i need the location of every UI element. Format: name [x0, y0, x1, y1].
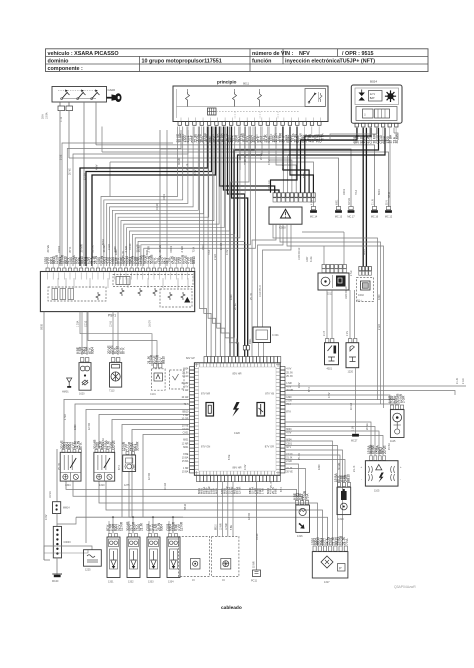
svg-text:2 GR: 2 GR — [286, 460, 292, 463]
svg-text:12 NR: 12 NR — [182, 442, 189, 445]
svg-text:21 JK: 21 JK — [140, 522, 144, 531]
svg-text:15 BA: 15 BA — [102, 438, 105, 445]
svg-text:73 A: 73 A — [355, 190, 358, 195]
svg-text:21 JK: 21 JK — [353, 465, 356, 472]
svg-text:2 GR: 2 GR — [108, 244, 111, 250]
svg-text:BB10: BB10 — [388, 191, 391, 198]
svg-text:87 K: 87 K — [118, 465, 121, 470]
svg-text:1320: 1320 — [286, 396, 292, 399]
svg-text:BB10: BB10 — [347, 474, 351, 482]
svg-text:87 K: 87 K — [122, 347, 126, 354]
svg-text:TU5JP+ (NFT): TU5JP+ (NFT) — [340, 58, 376, 64]
svg-text:10 GR: 10 GR — [220, 243, 223, 250]
svg-text:15 BA: 15 BA — [291, 133, 295, 141]
svg-text:73 A: 73 A — [188, 135, 192, 141]
svg-text:MC.17: MC.17 — [347, 216, 355, 219]
svg-text:9000: 9000 — [236, 338, 239, 344]
svg-text:20 VE: 20 VE — [69, 168, 72, 175]
svg-text:16 GR: 16 GR — [149, 320, 152, 327]
svg-text:C001: C001 — [239, 153, 242, 160]
svg-text:9001: 9001 — [249, 338, 252, 344]
svg-text:8 BE: 8 BE — [274, 488, 278, 494]
svg-text:21 JK: 21 JK — [286, 456, 293, 459]
svg-text:1316: 1316 — [297, 535, 303, 538]
svg-text:82V GP: 82V GP — [186, 357, 195, 360]
svg-text:1 NR: 1 NR — [183, 467, 189, 470]
svg-text:87 K: 87 K — [308, 387, 311, 392]
svg-text:12 VJ: 12 VJ — [110, 320, 113, 327]
svg-text:10 BA: 10 BA — [46, 112, 49, 119]
svg-text:25 JN: 25 JN — [270, 481, 273, 488]
svg-text:1320: 1320 — [303, 172, 306, 178]
svg-text:6001: 6001 — [146, 249, 149, 255]
svg-text:20 VE: 20 VE — [46, 245, 50, 253]
svg-text:PSF1: PSF1 — [108, 314, 116, 318]
svg-text:20 VE: 20 VE — [260, 153, 263, 160]
svg-text:CC10: CC10 — [286, 453, 293, 456]
svg-text:B024: B024 — [370, 80, 377, 84]
svg-text:25 JN: 25 JN — [250, 293, 253, 300]
svg-text:1334: 1334 — [168, 581, 174, 584]
svg-text:MC.12: MC.12 — [385, 216, 393, 219]
svg-text:4 VV: 4 VV — [244, 464, 247, 470]
svg-text:C001: C001 — [343, 188, 346, 195]
svg-text:8 BE: 8 BE — [60, 154, 63, 160]
svg-text:73 A: 73 A — [306, 493, 310, 500]
svg-text:87 K: 87 K — [280, 487, 283, 492]
svg-text:8 BE: 8 BE — [231, 525, 233, 530]
svg-text:92 V: 92 V — [386, 200, 389, 205]
svg-text:6004 GR: 6004 GR — [268, 180, 271, 190]
svg-text:87 K: 87 K — [79, 442, 83, 449]
svg-text:6004: 6004 — [160, 524, 164, 531]
svg-text:92 NR: 92 NR — [254, 561, 256, 568]
svg-text:-: - — [361, 478, 362, 481]
svg-text:1320: 1320 — [115, 249, 118, 255]
svg-text:1220: 1220 — [348, 371, 354, 374]
svg-text:1331: 1331 — [108, 581, 114, 584]
svg-text:BB10: BB10 — [192, 256, 196, 264]
svg-text:/ OPR : 9515: / OPR : 9515 — [342, 51, 373, 57]
svg-text:6004: 6004 — [378, 189, 381, 195]
svg-text:1 NR: 1 NR — [286, 382, 292, 385]
svg-text:87 K: 87 K — [68, 247, 72, 253]
svg-text:10 GR: 10 GR — [350, 403, 353, 410]
svg-text:6004: 6004 — [286, 428, 292, 431]
svg-text:MC40: MC40 — [52, 580, 59, 583]
svg-text:10 GR: 10 GR — [181, 396, 188, 399]
svg-text:2 GR: 2 GR — [402, 395, 406, 403]
svg-text:1320: 1320 — [318, 464, 321, 470]
svg-text:1313: 1313 — [338, 518, 344, 521]
svg-text:1225: 1225 — [85, 569, 91, 572]
svg-text:4 VV: 4 VV — [286, 368, 292, 371]
svg-text:1640 MC10: 1640 MC10 — [345, 286, 348, 299]
svg-text:4 VV: 4 VV — [226, 249, 229, 255]
svg-text:dominio: dominio — [48, 58, 70, 64]
svg-text:4 VV: 4 VV — [45, 514, 48, 520]
svg-text:4 VV: 4 VV — [328, 392, 331, 398]
svg-text:15 BA: 15 BA — [388, 443, 391, 450]
svg-text:1 JN: 1 JN — [353, 426, 355, 431]
svg-text:20 VE: 20 VE — [244, 155, 247, 162]
svg-text:25 JN: 25 JN — [58, 463, 61, 470]
svg-text:C 10: C 10 — [60, 116, 63, 122]
svg-text:C001: C001 — [57, 245, 61, 252]
svg-text:2 NR: 2 NR — [350, 270, 353, 276]
svg-text:C001: C001 — [286, 442, 292, 445]
svg-text:16 NR: 16 NR — [49, 491, 52, 498]
svg-text:4 VV: 4 VV — [286, 432, 292, 435]
svg-text:4 VV: 4 VV — [194, 169, 197, 175]
svg-text:1 NR: 1 NR — [261, 488, 265, 494]
svg-text:87V YB: 87V YB — [265, 392, 274, 396]
svg-text:1304: 1304 — [65, 484, 71, 487]
svg-text:30 MR: 30 MR — [79, 244, 83, 252]
svg-text:-: - — [400, 478, 401, 481]
svg-text:25 JN: 25 JN — [286, 375, 293, 378]
svg-text:6001: 6001 — [215, 488, 219, 494]
svg-text:1310: 1310 — [99, 484, 105, 487]
svg-text:principio: principio — [217, 80, 237, 85]
svg-text:12 V: 12 V — [370, 92, 376, 96]
svg-text:CC10: CC10 — [182, 375, 189, 378]
svg-text:87V GN: 87V GN — [201, 445, 210, 449]
svg-text:Q3AP04AzwR: Q3AP04AzwR — [394, 585, 416, 589]
svg-text:BB10: BB10 — [184, 503, 187, 510]
svg-text:COU: COU — [358, 293, 364, 297]
svg-text:1320: 1320 — [230, 294, 233, 300]
svg-text:BB00: BB00 — [41, 323, 44, 330]
svg-text:30 MR: 30 MR — [178, 157, 181, 165]
svg-text:1620: 1620 — [79, 393, 85, 396]
svg-text:BS--|: BS--| — [357, 301, 363, 303]
svg-text:12 NR: 12 NR — [180, 521, 184, 531]
svg-text:C001: C001 — [202, 243, 205, 250]
svg-text:MC.14: MC.14 — [310, 216, 318, 219]
svg-text:21 JK: 21 JK — [372, 198, 375, 205]
svg-text:1317: 1317 — [324, 581, 330, 584]
svg-text:1332: 1332 — [128, 581, 134, 584]
svg-text:21 B: 21 B — [323, 331, 326, 336]
svg-text:1320: 1320 — [74, 424, 77, 430]
svg-text:2 GR: 2 GR — [462, 378, 465, 384]
svg-text:12 NR: 12 NR — [238, 487, 242, 494]
svg-text:30 MR: 30 MR — [348, 198, 351, 205]
svg-text:20 VE: 20 VE — [383, 445, 387, 454]
svg-text:6004: 6004 — [91, 347, 95, 354]
svg-text:2 GR: 2 GR — [214, 254, 217, 260]
svg-text:2 JN: 2 JN — [346, 331, 349, 336]
svg-text:6001: 6001 — [183, 446, 189, 449]
svg-text:4 VV: 4 VV — [298, 382, 301, 388]
svg-text:1410 PC-0: 1410 PC-0 — [259, 285, 262, 297]
svg-text:25 JN: 25 JN — [122, 251, 125, 258]
svg-text:CA00: CA00 — [108, 88, 116, 92]
svg-text:1207: 1207 — [306, 256, 309, 262]
svg-text:15 BA: 15 BA — [182, 471, 189, 474]
svg-text:15 BA: 15 BA — [182, 460, 189, 463]
svg-text:4 VV: 4 VV — [268, 159, 271, 165]
svg-text:1105: 1105 — [374, 490, 380, 493]
svg-text:21 JK: 21 JK — [91, 245, 95, 252]
svg-text:6004: 6004 — [284, 134, 288, 141]
svg-text:8011: 8011 — [243, 82, 249, 86]
svg-text:92 V: 92 V — [286, 446, 291, 449]
svg-text:83V HR: 83V HR — [232, 372, 241, 376]
svg-text:C0003: C0003 — [64, 541, 72, 544]
svg-text:12 NR: 12 NR — [226, 523, 228, 530]
svg-text:BB10: BB10 — [215, 524, 217, 530]
svg-text:4 VV: 4 VV — [311, 199, 314, 205]
svg-text:20 VE: 20 VE — [286, 471, 293, 474]
svg-text:2 GR: 2 GR — [183, 389, 189, 392]
svg-text:25 JN: 25 JN — [286, 371, 293, 374]
svg-text:10 grupo motopropulsor117551: 10 grupo motopropulsor117551 — [142, 58, 222, 64]
svg-text:BB10: BB10 — [183, 410, 190, 413]
svg-text:15 BA: 15 BA — [138, 245, 141, 252]
svg-text:1320: 1320 — [196, 134, 200, 141]
svg-text:2 GR: 2 GR — [378, 324, 381, 330]
svg-text:20 VE: 20 VE — [182, 425, 189, 428]
svg-text:MC.13: MC.13 — [335, 216, 343, 219]
svg-text:12 NR: 12 NR — [148, 473, 151, 480]
svg-text:1 NR: 1 NR — [64, 414, 67, 420]
svg-text:cableado: cableado — [221, 605, 242, 611]
svg-text:25 JN: 25 JN — [282, 163, 285, 170]
svg-text:7113: 7113 — [109, 390, 115, 393]
svg-text:12 NR: 12 NR — [120, 521, 124, 531]
svg-text:6001: 6001 — [183, 439, 189, 442]
svg-text:30 A: 30 A — [42, 114, 45, 119]
svg-text:HM01: HM01 — [62, 391, 69, 394]
svg-text:25 JN: 25 JN — [298, 453, 301, 460]
svg-text:6004: 6004 — [363, 249, 366, 255]
svg-text:73 A: 73 A — [191, 247, 195, 253]
svg-text:87 K: 87 K — [286, 410, 291, 413]
svg-text:PC11: PC11 — [251, 580, 258, 583]
svg-text:1440 MC12: 1440 MC12 — [298, 247, 301, 260]
svg-text:12 NR: 12 NR — [221, 523, 223, 530]
svg-text:4L0E: 4L0E — [310, 256, 313, 262]
svg-text:componente :: componente : — [48, 66, 84, 72]
svg-text:12 NR: 12 NR — [248, 513, 251, 520]
svg-text:2 GR: 2 GR — [286, 400, 292, 403]
svg-text:87V GR: 87V GR — [265, 445, 274, 449]
svg-text:73 A: 73 A — [345, 538, 349, 545]
svg-text:8 BE: 8 BE — [183, 453, 189, 456]
svg-text:C 001: C 001 — [272, 334, 279, 337]
svg-text:73 A: 73 A — [208, 250, 211, 255]
svg-text:vehículo : XSARA PICASSO: vehículo : XSARA PICASSO — [48, 51, 119, 57]
svg-text:inyección electrónica: inyección electrónica — [285, 58, 341, 64]
svg-text:20 VE: 20 VE — [158, 245, 162, 253]
svg-text:1 20A: 1 20A — [77, 320, 80, 327]
svg-text:1320: 1320 — [378, 294, 381, 300]
svg-text:4021: 4021 — [327, 368, 333, 371]
svg-text:15 BA: 15 BA — [84, 173, 87, 180]
svg-text:C001: C001 — [169, 245, 173, 252]
svg-text:CC10: CC10 — [256, 533, 259, 540]
svg-text:BAT: BAT — [370, 96, 375, 100]
svg-text:1333: 1333 — [148, 581, 154, 584]
svg-text:21 JK: 21 JK — [186, 163, 189, 170]
svg-text:86V HR: 86V HR — [232, 466, 241, 470]
svg-text:10 GR: 10 GR — [164, 483, 167, 490]
svg-text:BB10: BB10 — [162, 356, 166, 364]
svg-text:20 VE: 20 VE — [234, 303, 237, 310]
svg-text:1125: 1125 — [390, 440, 396, 443]
svg-text:12 NR: 12 NR — [88, 423, 91, 430]
svg-text:20 VE: 20 VE — [112, 440, 116, 449]
svg-text:CC10: CC10 — [129, 243, 132, 250]
svg-text:8 BE: 8 BE — [228, 454, 231, 460]
svg-text:C001: C001 — [163, 193, 166, 200]
svg-text:número de VIN :: número de VIN : — [252, 51, 294, 57]
svg-text:función: función — [252, 58, 271, 64]
svg-text:MM14: MM14 — [63, 507, 70, 510]
svg-text:6004: 6004 — [102, 239, 105, 245]
svg-text:4 VV: 4 VV — [96, 164, 99, 170]
svg-text:25 JN: 25 JN — [182, 371, 189, 374]
svg-text:8 BE: 8 BE — [276, 135, 280, 141]
svg-text:6001: 6001 — [336, 199, 339, 205]
svg-text:10 GR: 10 GR — [181, 417, 188, 420]
svg-text:CC10: CC10 — [269, 133, 273, 141]
svg-text:CC10: CC10 — [156, 203, 159, 210]
svg-text:1320: 1320 — [234, 431, 240, 435]
svg-text:MC27: MC27 — [351, 440, 358, 443]
svg-text:30 MR: 30 MR — [181, 382, 188, 385]
svg-text:1320: 1320 — [134, 464, 137, 470]
svg-text:20 VE: 20 VE — [366, 423, 369, 430]
svg-text:15 BA: 15 BA — [182, 456, 189, 459]
svg-text:30 MR: 30 MR — [136, 441, 140, 451]
svg-text:MC.16: MC.16 — [371, 216, 379, 219]
svg-text:NFV: NFV — [299, 51, 310, 57]
svg-text:2 GR: 2 GR — [180, 246, 184, 253]
svg-text:1275: 1275 — [124, 484, 130, 487]
svg-text:87V NR: 87V NR — [201, 392, 210, 396]
svg-text:C101: C101 — [150, 393, 156, 396]
svg-text:21 JK: 21 JK — [456, 377, 459, 384]
svg-text:30 MR: 30 MR — [338, 462, 341, 470]
